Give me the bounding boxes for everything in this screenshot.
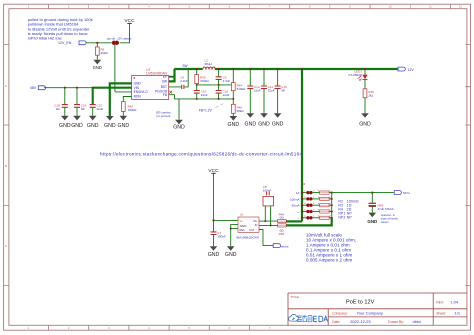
svg-text:GND: GND <box>208 252 220 258</box>
junction C15 rail <box>277 68 279 70</box>
ground under C19 <box>71 116 83 129</box>
ground under C7 <box>208 246 220 258</box>
op-amp U1 body <box>238 217 259 232</box>
wire shunt to bus <box>329 211 332 213</box>
svg-text:IN+: IN+ <box>253 219 258 223</box>
svg-text:KT-0603R: KT-0603R <box>348 73 362 77</box>
wire shunt to bus <box>329 198 332 200</box>
ground under C15 <box>272 113 284 127</box>
VCC symbol top <box>124 18 135 24</box>
wire R42 to gnd <box>122 111 124 115</box>
EasyEDA logo <box>289 314 328 322</box>
svg-text:IN: IN <box>255 223 258 227</box>
resistor R39 <box>195 69 210 85</box>
solder jumper <box>112 41 119 45</box>
svg-text:V+: V+ <box>240 219 244 223</box>
wire 48V <box>44 87 93 89</box>
ground under R6 <box>93 60 102 70</box>
pin marks <box>305 209 330 210</box>
svg-text:12V: 12V <box>408 68 415 72</box>
wire row stub <box>302 211 306 213</box>
svg-text:--: -- <box>298 210 300 214</box>
pin marks <box>305 190 330 191</box>
svg-text:U1: U1 <box>240 213 244 217</box>
wire jumper to shunt <box>313 211 320 213</box>
svg-text:VCC: VCC <box>124 18 135 24</box>
no-connect PGOOD <box>169 91 172 94</box>
capacitor C8 <box>263 185 272 196</box>
svg-text:20kΩ: 20kΩ <box>101 51 109 55</box>
resistor R6 <box>95 47 99 55</box>
wire IN- <box>259 224 278 226</box>
svg-text:Sheet:: Sheet: <box>436 312 446 316</box>
svg-text:GND: GND <box>258 121 270 127</box>
shunt resistor <box>320 210 330 213</box>
pin marks <box>305 197 330 198</box>
svg-text:GND: GND <box>71 123 83 129</box>
port sense <box>273 244 289 249</box>
wire row stub <box>302 198 306 200</box>
capacitor C5 <box>216 69 231 85</box>
solder jumper row <box>306 197 309 200</box>
svg-text:48V: 48V <box>30 86 37 90</box>
svg-text:GND: GND <box>245 121 257 127</box>
svg-text:Company:: Company: <box>332 312 348 316</box>
VCC symbol <box>208 168 219 174</box>
ground under R42 <box>118 116 130 129</box>
scale note <box>306 233 356 263</box>
filter legs <box>265 206 270 226</box>
wire shunt to bus <box>329 217 332 219</box>
wire row stub <box>302 192 306 194</box>
port 12V_EN <box>58 41 86 45</box>
svg-text:INA199B1DCKR: INA199B1DCKR <box>236 235 260 239</box>
svg-text:510kΩ: 510kΩ <box>237 87 247 91</box>
LED LED1 <box>348 69 367 89</box>
svg-text:GND: GND <box>367 219 377 224</box>
ground under GND pin <box>104 116 116 129</box>
ground under U1 <box>225 246 237 258</box>
border ticks bottom <box>49 325 250 330</box>
pin marks <box>305 203 330 204</box>
svg-text:case of inrush: case of inrush <box>381 217 399 221</box>
capacitor C12 <box>261 69 275 113</box>
svg-text:100kΩ: 100kΩ <box>128 108 138 112</box>
junction row right <box>331 192 333 194</box>
svg-text:SW: SW <box>162 80 167 84</box>
svg-text:GND: GND <box>93 65 102 70</box>
capacitor C10 <box>194 85 208 99</box>
svg-text:3.3nF: 3.3nF <box>223 79 231 83</box>
svg-text:1/1: 1/1 <box>455 311 461 316</box>
border ticks right <box>465 45 470 286</box>
svg-text:2022-12-23: 2022-12-23 <box>350 319 371 324</box>
junction C12 rail <box>263 68 265 70</box>
svg-text:cpu ctrl - 12V: always: cpu ctrl - 12V: always <box>107 37 132 41</box>
shunt resistor <box>320 216 330 219</box>
svg-text:REF: REF <box>240 228 246 232</box>
wire IN+ <box>259 220 278 222</box>
svg-text:11: 11 <box>429 5 432 9</box>
svg-text:U4: U4 <box>302 182 306 186</box>
border ticks left <box>4 45 9 286</box>
capacitor C6 <box>369 193 394 213</box>
svg-text:GND: GND <box>59 123 71 129</box>
capacitor C15 <box>275 69 288 113</box>
junction row right <box>331 198 333 200</box>
resistor R45 <box>363 89 374 113</box>
svg-text:FB: FB <box>163 93 167 97</box>
svg-text:2k2: 2k2 <box>368 94 373 98</box>
FB node line <box>197 98 234 100</box>
wire thick R48 to bus <box>286 218 332 225</box>
wire shunt to bus <box>329 192 332 194</box>
svg-text:OUT: OUT <box>249 228 255 232</box>
wire 48V thick to VIN <box>93 87 132 89</box>
svg-text:REV:: REV: <box>436 300 444 304</box>
shunt resistor <box>320 197 330 200</box>
wire EN/UVLO <box>115 91 132 93</box>
svg-text:GND: GND <box>87 123 99 129</box>
svg-text:12: 12 <box>459 5 462 9</box>
solder jumper row <box>306 216 309 219</box>
ground under C12 <box>258 113 270 127</box>
op-amp U7 body <box>132 76 169 100</box>
wire RON <box>123 97 131 102</box>
svg-text:470kΩ: 470kΩ <box>200 79 210 83</box>
svg-text:TITLE:: TITLE: <box>291 295 300 299</box>
svg-text:--: -- <box>298 216 300 220</box>
wire jumper to shunt <box>313 217 320 219</box>
row labels <box>290 191 300 220</box>
junction C18 <box>64 87 66 89</box>
junction row left <box>301 210 303 212</box>
wire R6 to gnd <box>96 55 98 60</box>
svg-text:R48: R48 <box>279 232 285 236</box>
solder jumper row <box>306 210 309 213</box>
svg-text:GPIO intial HiZ low.: GPIO intial HiZ low. <box>28 35 63 40</box>
svg-text:10: 10 <box>389 5 392 9</box>
filter box <box>263 196 274 206</box>
svg-text:A: A <box>5 84 7 88</box>
wire jumper down to EN <box>114 45 116 92</box>
port MCU <box>394 191 410 196</box>
wire bus to MCU port <box>332 192 394 194</box>
capacitor C13 <box>90 88 104 116</box>
junction row left <box>301 191 303 193</box>
junction C19 <box>76 87 78 89</box>
svg-text:2.2nF: 2.2nF <box>180 79 188 83</box>
svg-text:100mA: 100mA <box>290 197 300 201</box>
junction row left <box>301 198 303 200</box>
wire row stub <box>302 217 306 219</box>
wire jumper to shunt <box>313 198 320 200</box>
port 12V <box>398 67 414 72</box>
svg-text:issues: issues <box>381 220 389 224</box>
ground EP <box>173 120 185 131</box>
wire EP to SW riser <box>169 76 175 78</box>
junction R44 rail <box>232 68 234 70</box>
wire OUT to sense port <box>259 230 273 246</box>
junction row left <box>301 204 303 206</box>
svg-text:PoE to 12V: PoE to 12V <box>346 300 375 306</box>
svg-text:optional - in: optional - in <box>381 213 396 217</box>
svg-text:NP2: NP2 <box>338 216 345 220</box>
svg-text:https://electronics.stackexcha: https://electronics.stackexchange.com/qu… <box>100 151 302 156</box>
svg-text:GND: GND <box>104 123 116 129</box>
svg-text:68uH: 68uH <box>205 62 212 66</box>
svg-text:Drawn By:: Drawn By: <box>388 320 404 324</box>
svg-text:dirkx: dirkx <box>413 319 421 324</box>
svg-text:47uF 50Volt: 47uF 50Volt <box>378 207 394 211</box>
wire jumper to shunt <box>313 192 320 194</box>
capacitor C18 <box>54 88 68 116</box>
svg-text:22pF: 22pF <box>223 93 230 97</box>
svg-text:B: B <box>5 164 7 168</box>
svg-text:NF: NF <box>281 88 285 92</box>
wire jumper to shunt <box>313 204 320 206</box>
wire shunt to bus <box>329 204 332 206</box>
ground under C6 <box>367 213 377 224</box>
title block frame <box>288 293 467 325</box>
capacitor C7 <box>211 220 226 246</box>
svg-text:SW: SW <box>182 64 187 68</box>
svg-text:NF: NF <box>56 107 60 111</box>
wire thick to R46 <box>286 220 302 222</box>
junction LED rail <box>364 68 366 70</box>
junction R39 rail <box>196 68 198 70</box>
wires U1 left pins to gnd <box>231 225 238 247</box>
ground under R45 <box>359 113 371 127</box>
svg-text:RON: RON <box>134 95 142 99</box>
svg-text:NP: NP <box>347 216 353 220</box>
svg-text:50mA: 50mA <box>292 204 300 208</box>
junction row right <box>331 217 333 219</box>
svg-text:no current: no current <box>156 114 170 118</box>
svg-text:22uF: 22uF <box>254 88 261 92</box>
svg-text:GND: GND <box>173 125 185 131</box>
junction row right <box>331 210 333 212</box>
node line mid <box>197 84 232 86</box>
svg-text:Date:: Date: <box>332 320 340 324</box>
wire R6 stub <box>96 43 98 47</box>
junction at R6 top <box>96 42 98 44</box>
bus vertical <box>331 193 333 218</box>
svg-text:GND: GND <box>359 121 371 127</box>
svg-text:22pF: 22pF <box>201 93 208 97</box>
svg-text:56kΩ: 56kΩ <box>237 109 245 113</box>
resistor R48 <box>278 224 287 236</box>
wire 12V_EN to jumper <box>86 42 112 44</box>
svg-text:12V_EN: 12V_EN <box>58 41 72 45</box>
ground under C13 <box>87 116 99 129</box>
svg-text:GND: GND <box>228 122 240 128</box>
svg-text:GND: GND <box>118 123 130 129</box>
wire 12V thick drop <box>301 69 303 221</box>
note optional <box>381 213 399 224</box>
note text block <box>28 17 93 40</box>
capacitor C4 <box>169 68 190 89</box>
shunt resistor <box>320 191 330 194</box>
junction C14 rail <box>249 68 251 70</box>
svg-text:sense: sense <box>281 244 289 248</box>
solder jumper row <box>306 191 309 194</box>
port 48V <box>30 86 46 90</box>
wire jumper to VCC riser <box>120 24 130 43</box>
wire VCC down <box>213 173 215 220</box>
svg-text:VCC: VCC <box>208 168 219 174</box>
svg-text:Your Company: Your Company <box>357 311 383 316</box>
junction C13 <box>92 87 94 89</box>
inductor L2 <box>202 58 215 70</box>
svg-text:LM5164DDAR: LM5164DDAR <box>146 71 167 75</box>
resistor R46 <box>278 212 287 222</box>
svg-text:100nF: 100nF <box>263 188 272 192</box>
svg-text:GND: GND <box>272 121 284 127</box>
wire SW thick riser <box>169 69 175 81</box>
wire row stub <box>302 204 306 206</box>
svg-text:EP: EP <box>163 75 167 79</box>
resistor R40 <box>231 99 244 116</box>
svg-text:NF: NF <box>81 107 85 111</box>
svg-text:1A: 1A <box>296 191 300 195</box>
shunt resistor <box>320 204 330 207</box>
junction row right <box>331 204 333 206</box>
svg-text:1.04: 1.04 <box>450 300 459 305</box>
ground under C18 <box>59 116 71 129</box>
svg-text:0.005 Ampere x 2 ohm: 0.005 Ampere x 2 ohm <box>306 258 352 263</box>
12V rail thick <box>174 68 398 70</box>
wire FB <box>169 95 197 99</box>
border ticks top <box>49 4 451 9</box>
ground under C14 <box>245 113 257 127</box>
junction row left <box>301 217 303 219</box>
ground under R40 <box>228 116 240 128</box>
resistor R44 <box>231 69 246 99</box>
svg-text:GND: GND <box>240 224 248 228</box>
svg-text:MCU: MCU <box>403 191 410 195</box>
value table <box>338 200 359 220</box>
svg-text:100nF: 100nF <box>217 234 226 238</box>
pin marks <box>305 215 330 216</box>
capacitor C14 <box>247 69 261 113</box>
wire VCC to U1 <box>214 219 239 221</box>
svg-text:22uF: 22uF <box>97 107 104 111</box>
junction C5 rail <box>218 68 220 70</box>
svg-text:GND: GND <box>225 252 237 258</box>
solder jumper row <box>306 204 309 207</box>
resistor R42 <box>121 102 125 112</box>
svg-text:FB=1.2V: FB=1.2V <box>199 108 213 112</box>
svg-text:22uF: 22uF <box>268 88 275 92</box>
wire GND pin thick <box>110 83 132 116</box>
capacitor C16 <box>216 85 230 99</box>
svg-text:EN/UVLO: EN/UVLO <box>134 90 149 94</box>
wire EP gnd drop <box>178 99 180 120</box>
capacitor C19 <box>74 88 87 116</box>
